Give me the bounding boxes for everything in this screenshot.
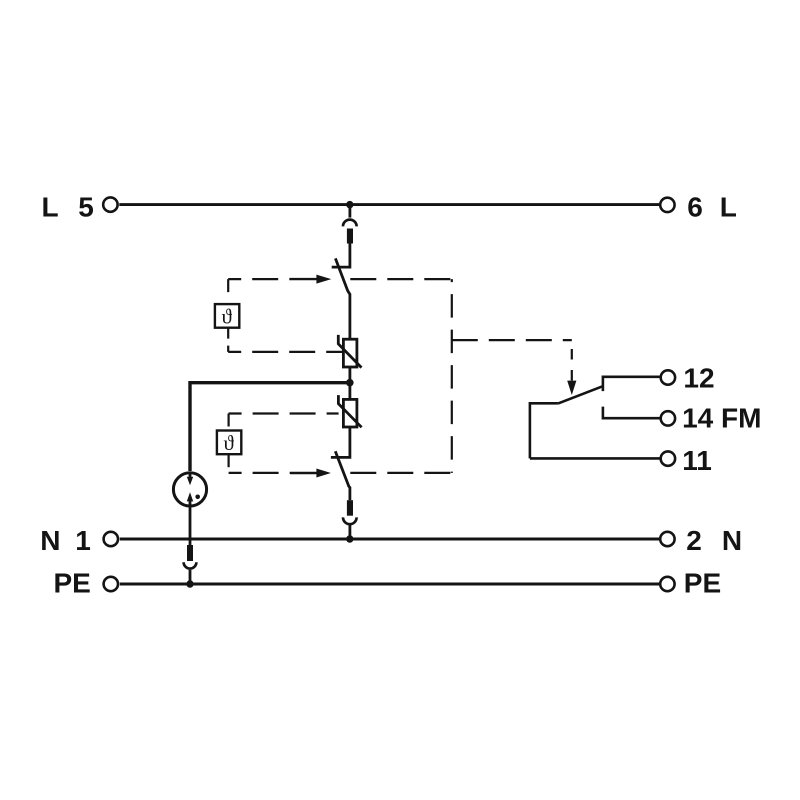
svg-text:6: 6	[687, 192, 703, 223]
svg-text:PE: PE	[54, 567, 91, 598]
svg-text:N: N	[722, 525, 742, 556]
svg-text:PE: PE	[684, 568, 721, 599]
svg-text:14 FM: 14 FM	[682, 403, 761, 434]
svg-text:L: L	[720, 192, 737, 223]
svg-text:ϑ: ϑ	[224, 431, 235, 455]
svg-text:ϑ: ϑ	[222, 305, 233, 329]
svg-text:N: N	[40, 525, 60, 556]
svg-text:1: 1	[75, 525, 91, 556]
svg-text:5: 5	[78, 191, 94, 222]
svg-text:L: L	[42, 191, 59, 222]
svg-text:11: 11	[682, 445, 712, 476]
svg-text:2: 2	[686, 525, 702, 556]
svg-text:12: 12	[683, 362, 714, 393]
